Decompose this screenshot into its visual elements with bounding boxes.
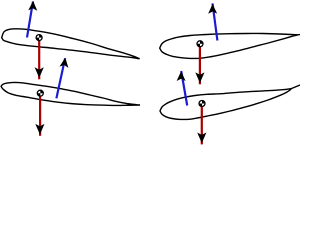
trailing-edge tick 3 xyxy=(296,34,300,36)
trailing-edge tick 1 xyxy=(137,57,140,59)
weight arrowhead 4 xyxy=(197,133,206,144)
lift vector 4 (blue shaft) xyxy=(181,71,187,106)
trailing-edge tick 2 xyxy=(128,104,140,106)
weight vector 4 (red shaft) xyxy=(201,107,203,145)
CG symbol 2 xyxy=(37,90,43,96)
CG symbol 3 xyxy=(197,41,203,47)
lift arrowhead 4 xyxy=(177,71,186,81)
weight arrowhead 3 xyxy=(195,72,204,83)
weight vector 2 (red shaft) xyxy=(39,96,41,136)
lift vector 2 (blue shaft) xyxy=(56,58,65,98)
lift arrowhead 2 xyxy=(59,57,69,68)
airfoil 2 (bottom-left wing section) xyxy=(1,82,137,105)
lift arrowhead 1 xyxy=(28,1,37,11)
airfoil 3 (top-right wing section) xyxy=(160,33,298,58)
lift vector 1 (blue shaft) xyxy=(27,2,33,38)
weight arrowhead 2 xyxy=(35,124,44,135)
CG symbol 4 xyxy=(199,100,205,106)
weight vector 3 (red shaft) xyxy=(199,47,201,85)
weight arrowhead 1 xyxy=(35,67,44,78)
trailing-edge tick 4 xyxy=(290,85,300,89)
airfoil 1 (top-left wing section) xyxy=(2,29,139,59)
lift arrowhead 3 xyxy=(208,4,217,14)
weight vector 1 (red shaft) xyxy=(38,40,40,79)
airfoil 4 (bottom-right wing section) xyxy=(160,89,291,120)
lift vector 3 (blue shaft) xyxy=(213,3,218,40)
CG symbol 1 xyxy=(36,35,42,41)
